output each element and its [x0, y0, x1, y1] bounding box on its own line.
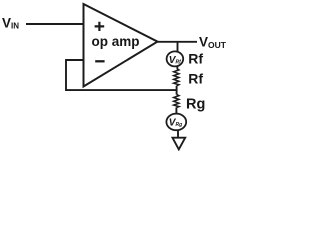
svg-text:Rf: Rf: [188, 51, 203, 67]
svg-text:op amp: op amp: [92, 34, 140, 49]
svg-text:Rg: Rg: [186, 97, 205, 113]
svg-text:Rf: Rf: [188, 71, 203, 87]
